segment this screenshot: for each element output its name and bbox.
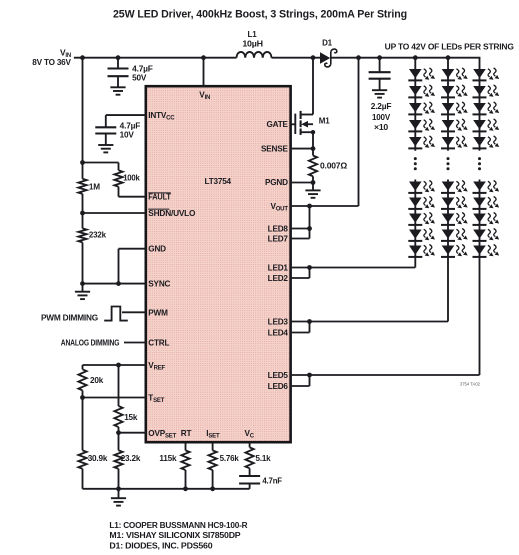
svg-text:×10: ×10 — [374, 123, 389, 132]
ground input cap — [110, 76, 125, 95]
resistor 5.76k ISET — [209, 443, 240, 489]
transistor Q M1 MOSFET — [290, 58, 330, 149]
svg-text:LED3: LED3 — [268, 318, 289, 327]
pin SHDN/UVLO of U1 — [148, 209, 196, 218]
wire left UVLO rail — [82, 58, 84, 284]
svg-text:30.9k: 30.9k — [88, 454, 108, 463]
wire LED3 LED4 return — [290, 322, 448, 333]
pin LED3 of U1 — [268, 318, 289, 327]
pin INTVCC of U1 — [148, 111, 175, 122]
junction LED8 stub — [307, 226, 312, 231]
pin LED6 of U1 — [268, 382, 289, 391]
svg-text:2.2µF: 2.2µF — [371, 102, 392, 111]
junction ISET bottom — [210, 486, 215, 491]
svg-text:4.7nF: 4.7nF — [262, 476, 282, 485]
ground bottom rail — [111, 489, 126, 506]
wire LED1 LED2 return — [290, 268, 415, 279]
svg-text:PGND: PGND — [265, 178, 288, 187]
ground SYNC — [75, 284, 90, 300]
svg-text:20k: 20k — [90, 376, 104, 385]
svg-text:LED1: LED1 — [268, 264, 289, 273]
svg-text:LED6: LED6 — [268, 382, 289, 391]
node VIN input label — [32, 48, 71, 67]
wire SHDN/UVLO — [83, 212, 147, 214]
junction SENSE node — [311, 146, 316, 151]
wire 1M-100k top node — [83, 163, 119, 171]
svg-text:GND: GND — [148, 245, 166, 254]
junction M1 drain / D1 anode — [311, 55, 316, 60]
svg-text:LED2: LED2 — [268, 274, 289, 283]
junction LED5 stub — [307, 373, 312, 378]
wire PWM pin — [122, 311, 147, 313]
resistor 23.2k — [114, 433, 140, 469]
wire VOUT to rail — [290, 58, 359, 206]
svg-text:PWM: PWM — [148, 308, 168, 317]
svg-text:GATE: GATE — [266, 120, 288, 129]
junction 232k bottom — [80, 281, 85, 286]
svg-text:15k: 15k — [124, 413, 138, 422]
svg-text:10V: 10V — [120, 131, 135, 140]
value label 2.2µF 100V x10 — [371, 102, 392, 132]
svg-text:10µH: 10µH — [242, 39, 263, 48]
svg-text:232k: 232k — [89, 231, 107, 240]
capacitor 2.2µF 100V x10 output — [369, 58, 391, 79]
pin SYNC of U1 — [148, 280, 170, 289]
resistor 20k — [78, 369, 103, 390]
junction OVPSET node — [116, 430, 121, 435]
svg-text:25W LED Driver, 400kHz Boost,: 25W LED Driver, 400kHz Boost, 3 Strings,… — [113, 8, 407, 20]
junction SHDN node — [80, 211, 85, 216]
wire 100k to FAULT — [119, 187, 147, 197]
pin LED1 of U1 — [268, 264, 289, 273]
svg-text:L1: COOPER BUSSMANN HC9-100-R: L1: COOPER BUSSMANN HC9-100-R — [109, 521, 247, 530]
svg-text:4.7µF: 4.7µF — [120, 121, 141, 130]
wire LED8 LED7 stubs — [290, 206, 310, 239]
wire INTVCC pin to cap — [106, 115, 147, 127]
pin LED8 of U1 — [268, 225, 289, 234]
pin GATE of U1 — [266, 120, 288, 129]
svg-text:4.7µF: 4.7µF — [132, 64, 153, 73]
LED string 3 — [473, 58, 500, 375]
svg-text:1M: 1M — [89, 182, 100, 191]
junction VIN corner — [80, 55, 85, 60]
junction ground stem — [116, 486, 121, 491]
value label 4.7µF 50V — [132, 64, 153, 82]
svg-text:CTRL: CTRL — [148, 339, 169, 348]
svg-text:UP TO 42V OF LEDs PER STRING: UP TO 42V OF LEDs PER STRING — [385, 43, 514, 52]
capacitor 4.7µF 10V INTVCC — [95, 127, 116, 133]
pin SENSE of U1 — [261, 145, 288, 154]
svg-text:D1: DIODES, INC. PDS560: D1: DIODES, INC. PDS560 — [109, 541, 213, 550]
pin PGND of U1 — [265, 178, 288, 187]
pin LED2 of U1 — [268, 274, 289, 283]
junction input cap — [116, 55, 121, 60]
pulse waveform symbol — [104, 307, 128, 321]
op-amp U1 LT3754 controller IC body — [146, 86, 291, 442]
wire VREF line — [83, 365, 147, 369]
resistor 30.9k — [78, 398, 107, 469]
svg-text:100k: 100k — [123, 174, 140, 183]
junction LED3 stub — [307, 319, 312, 324]
pin LED5 of U1 — [268, 371, 289, 380]
pin TSET of U1 — [148, 394, 164, 405]
svg-text:LT3754: LT3754 — [205, 177, 232, 186]
svg-text:50V: 50V — [132, 74, 147, 83]
junction LED string 1 — [413, 55, 418, 60]
capacitor 4.7nF — [239, 476, 282, 489]
svg-text:RT: RT — [181, 429, 192, 438]
wire CTRL pin — [124, 342, 147, 344]
resistor 115k RT — [159, 443, 189, 489]
pin LED4 of U1 — [268, 329, 289, 338]
pin FAULT of U1 — [148, 193, 171, 202]
svg-text:3754 TA02: 3754 TA02 — [460, 381, 481, 386]
ground sense resistor — [305, 183, 320, 198]
diode D1 Schottky — [320, 38, 337, 67]
pin ISET of U1 — [206, 429, 220, 440]
pin LED7 of U1 — [268, 235, 289, 244]
svg-text:PWM DIMMING: PWM DIMMING — [41, 313, 98, 322]
svg-text:SYNC: SYNC — [148, 280, 170, 289]
svg-text:LED5: LED5 — [268, 371, 289, 380]
svg-text:ANALOG DIMMING: ANALOG DIMMING — [61, 338, 120, 347]
wire TSET line — [83, 390, 147, 397]
ground INTVCC cap — [98, 134, 113, 153]
resistor 232k — [78, 228, 106, 242]
pin VC of U1 — [245, 429, 255, 440]
wire bottom ground rail — [83, 469, 250, 489]
value label 4.7µF 10V — [120, 121, 141, 139]
junction TSET node — [80, 395, 85, 400]
svg-text:5.1k: 5.1k — [256, 454, 272, 463]
junction top of 1M — [80, 160, 85, 165]
svg-text:M1: M1 — [319, 116, 330, 125]
wire SENSE — [290, 148, 313, 150]
pin VIN of U1 — [199, 58, 210, 101]
svg-text:M1: VISHAY SILICONIX SI7850DP: M1: VISHAY SILICONIX SI7850DP — [109, 531, 241, 540]
pin OVPSET of U1 — [148, 429, 176, 440]
junction PGND node — [311, 180, 316, 185]
junction RT bottom — [183, 486, 188, 491]
svg-text:23.2k: 23.2k — [121, 454, 141, 463]
svg-text:LED7: LED7 — [268, 235, 289, 244]
pin VREF of U1 — [148, 361, 165, 372]
wire GND pin — [119, 249, 147, 284]
wire OVPSET line — [119, 427, 147, 433]
pin RT of U1 — [181, 429, 192, 438]
junction GND drop on SYNC wire — [116, 281, 121, 286]
wire SYNC to ground — [83, 283, 147, 285]
junction LED string 2 — [446, 55, 451, 60]
resistor 5.1k VC — [246, 443, 272, 476]
svg-text:L1: L1 — [248, 30, 258, 39]
svg-text:8V TO 36V: 8V TO 36V — [32, 58, 71, 67]
pin CTRL of U1 — [148, 339, 169, 348]
junction output cap — [377, 55, 382, 60]
resistor 100k — [114, 170, 140, 186]
svg-text:D1: D1 — [322, 38, 333, 47]
pin VOUT of U1 — [270, 202, 288, 213]
resistor 1M — [78, 179, 100, 194]
wire PGND — [290, 182, 313, 184]
pin PWM of U1 — [148, 308, 168, 317]
wire VIN top rail — [74, 57, 481, 59]
svg-text:SENSE: SENSE — [261, 145, 288, 154]
note parts list — [109, 521, 247, 551]
svg-text:SHDN/UVLO: SHDN/UVLO — [148, 209, 196, 218]
svg-text:100V: 100V — [372, 113, 391, 122]
ground output cap — [372, 79, 387, 98]
capacitor 4.7µF 50V input — [108, 58, 129, 76]
svg-text:115k: 115k — [159, 454, 177, 463]
pin GND of U1 — [148, 245, 166, 254]
junction LED1 stub — [307, 265, 312, 270]
svg-text:5.76k: 5.76k — [220, 454, 240, 463]
svg-text:FAULT: FAULT — [148, 193, 171, 202]
resistor 15k — [114, 365, 138, 427]
svg-text:0.007Ω: 0.007Ω — [320, 161, 348, 170]
wire LED5 LED6 return — [290, 375, 480, 386]
LED string 2 — [441, 58, 468, 322]
junction VOUT riser — [356, 55, 361, 60]
inductor L1 10µH — [237, 30, 272, 58]
junction LED8 riser top — [307, 204, 312, 209]
LED string 1 — [408, 58, 435, 268]
resistor 0.007Ω sense — [309, 149, 348, 183]
junction 15k top — [116, 363, 121, 368]
junction IC VIN — [201, 55, 206, 60]
svg-text:LED4: LED4 — [268, 329, 289, 338]
svg-text:LED8: LED8 — [268, 225, 289, 234]
